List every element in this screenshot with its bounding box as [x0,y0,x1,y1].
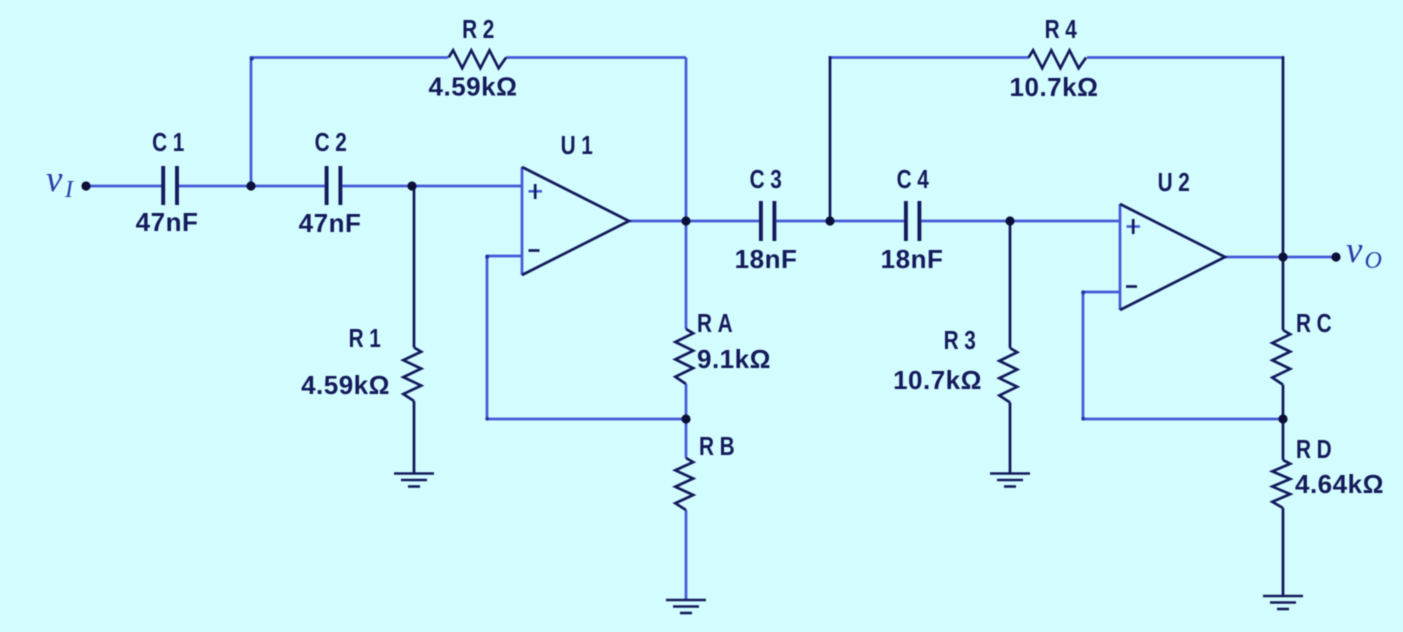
svg-text:9.1kΩ: 9.1kΩ [697,344,771,374]
svg-text:I: I [64,177,74,203]
svg-text:18nF: 18nF [881,244,944,274]
svg-text:4.59kΩ: 4.59kΩ [429,72,518,102]
svg-text:RA: RA [697,309,738,338]
svg-text:R4: R4 [1045,15,1083,44]
svg-text:C4: C4 [897,165,935,194]
svg-text:47nF: 47nF [136,207,199,237]
svg-text:C3: C3 [750,165,788,194]
svg-text:R1: R1 [349,324,387,353]
svg-text:R3: R3 [944,326,982,355]
svg-text:4.64kΩ: 4.64kΩ [1295,469,1384,499]
svg-text:RB: RB [699,432,740,461]
svg-text:4.59kΩ: 4.59kΩ [301,370,390,400]
svg-text:v: v [46,159,63,200]
svg-text:10.7kΩ: 10.7kΩ [1010,72,1099,102]
svg-text:O: O [1365,248,1382,274]
svg-text:47nF: 47nF [299,208,362,238]
svg-text:R2: R2 [462,15,500,44]
svg-text:C2: C2 [315,128,353,157]
svg-text:U2: U2 [1158,168,1196,197]
svg-text:C1: C1 [152,128,190,157]
svg-text:10.7kΩ: 10.7kΩ [893,365,982,395]
svg-text:RD: RD [1296,435,1337,464]
svg-text:U1: U1 [561,131,599,160]
svg-text:18nF: 18nF [735,244,798,274]
svg-text:RC: RC [1296,309,1337,338]
svg-text:v: v [1346,230,1363,271]
